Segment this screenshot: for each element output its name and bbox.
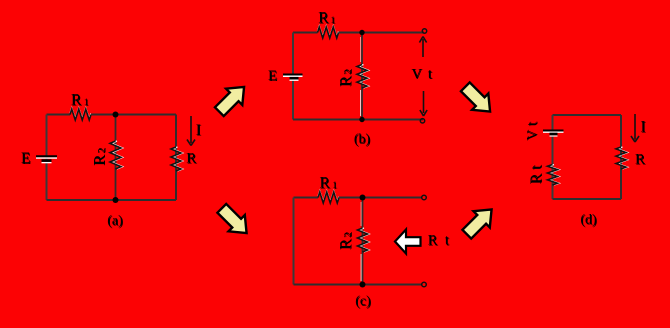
label R1 (a) [71, 92, 90, 110]
wire: (b) top right segment [339, 32, 425, 34]
svg-text:(b): (b) [354, 132, 371, 147]
label R2 (a) rotated [91, 147, 109, 165]
wire: (a) top left segment [47, 114, 71, 116]
label E (a) [21, 150, 31, 168]
node dot (b) top [359, 30, 364, 35]
battery E (b) short plate [290, 78, 299, 80]
svg-text:Vt: Vt [525, 122, 541, 141]
label R1 (b) [318, 10, 336, 28]
open terminal (c) top right [422, 195, 427, 200]
label Vt (d) rotated [525, 121, 542, 140]
current arrow I (d) [631, 114, 639, 142]
svg-text:Vt: Vt [411, 66, 432, 82]
svg-text:(d): (d) [580, 213, 597, 228]
svg-text:I: I [196, 122, 201, 139]
label (c) [355, 294, 372, 310]
wire: (c) top left segment [294, 197, 319, 199]
battery E (b) long plate [283, 75, 303, 77]
svg-text:R: R [635, 152, 645, 168]
terminal hook (b) top right [422, 29, 426, 33]
battery E (a) long plate [36, 156, 57, 158]
label Rt (d) rotated [528, 164, 546, 184]
yellow block arrow (a)->(c) pointing SE [214, 200, 255, 241]
yellow block arrow (c)->(d) pointing NE [459, 201, 500, 242]
wire: (d) top [553, 114, 622, 116]
wire: (d) right vertical [620, 115, 622, 199]
label (d) [580, 213, 597, 229]
wire: (b) left vertical [292, 33, 294, 120]
resistor R2 (a) zigzag [110, 141, 123, 169]
terminal hook (b) bottom right [420, 119, 424, 123]
Rt white block arrow (c) [395, 230, 421, 254]
label Rt (c) [428, 233, 450, 250]
resistor R (a) zigzag [171, 147, 183, 171]
label R (d) [635, 152, 646, 169]
svg-text:E: E [21, 150, 30, 167]
label R2 (c) rotated [338, 232, 356, 250]
wire: (b) bottom [293, 119, 423, 121]
voltage arrow Vt (b) up arrow [419, 37, 426, 58]
battery Vt (d) long plate [543, 131, 564, 133]
label (a) [107, 214, 124, 230]
wire: (a) left vertical [46, 115, 48, 201]
svg-text:R: R [186, 151, 196, 167]
wire: (d) left vertical [552, 115, 554, 199]
yellow block arrow (b)->(d) pointing SE [457, 79, 498, 120]
resistor R1 (a) zigzag [70, 108, 91, 120]
svg-text:(c): (c) [355, 294, 371, 309]
wire: (c) middle vertical [360, 254, 362, 281]
wire: (a) bottom [47, 199, 177, 201]
svg-text:I: I [641, 119, 646, 136]
battery E (a) short plate [42, 161, 52, 163]
resistor Rt (d) zigzag [548, 165, 560, 185]
resistor R1 (c) zigzag [318, 191, 339, 203]
wire: (b) top left segment [293, 32, 318, 34]
label Vt (b) [411, 66, 432, 83]
label R2 (b) rotated [338, 69, 356, 87]
yellow block arrow (a)->(b) pointing NE [211, 79, 252, 120]
node dot (b) bottom [359, 117, 364, 122]
resistor R1 (b) zigzag [318, 26, 339, 38]
resistor R2 (b) zigzag [357, 65, 369, 88]
label R1 (c) [320, 175, 339, 193]
voltage arrow Vt (b) down arrow [420, 91, 427, 116]
label I (d) [641, 119, 647, 137]
label I (a) [196, 122, 202, 140]
battery Vt (d) short plate [550, 134, 558, 136]
wire: (b) middle vertical [360, 90, 362, 116]
node dot (c) top [360, 195, 366, 201]
resistor R2 (c) zigzag [358, 228, 370, 252]
wire: (a) middle vertical [115, 115, 117, 201]
label E (b) [268, 68, 278, 85]
svg-text:Rt: Rt [528, 165, 545, 184]
label (b) [354, 132, 371, 148]
wire: (a) top right segment [91, 114, 176, 116]
wire: (c) top right segment [339, 197, 422, 199]
wire: (a) right vertical [175, 115, 177, 201]
svg-text:E: E [268, 68, 277, 84]
node dot (a) bottom [113, 197, 119, 203]
node dot (c) bottom [360, 282, 366, 288]
wire: (d) bottom [553, 198, 622, 200]
label R (a) [186, 151, 197, 168]
svg-text:(a): (a) [107, 214, 123, 229]
wire: (c) bottom [294, 284, 422, 286]
node dot (a) top [113, 112, 119, 118]
wire: (c) left vertical [293, 198, 295, 285]
resistor R (d) zigzag [616, 147, 628, 169]
open terminal (c) bottom right [422, 282, 427, 287]
current arrow I (a) [187, 116, 195, 146]
